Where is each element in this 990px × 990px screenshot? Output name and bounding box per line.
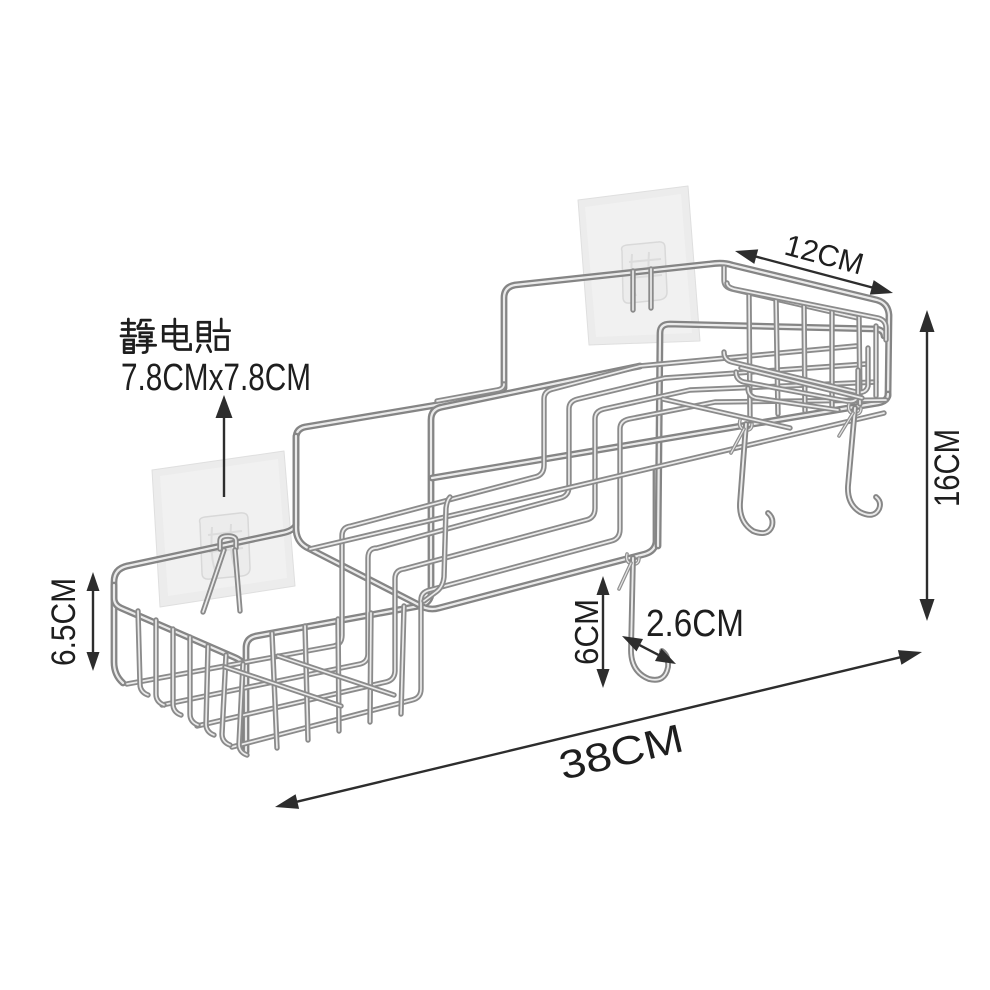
wire: step3 floor cross wire a [663, 399, 790, 428]
arrow: from pad1 up to pad size text [223, 414, 225, 497]
wire: pad1 mounting loop [220, 536, 236, 549]
wire: step1 end-wall vertical 1 [138, 611, 148, 695]
hook under step3 right [848, 408, 880, 515]
hook under step3 right retaining tab [839, 413, 853, 436]
wire: staircase floor/riser wire 1 [127, 346, 856, 684]
wire: step1 front rim arch rising to step2 front rim [246, 366, 640, 752]
wire: step3 front-wall vertical 5 [859, 316, 860, 404]
wire: step1 end-wall vertical 2 [156, 620, 164, 705]
wire: step1 end-wall vertical 4 [190, 637, 198, 725]
dimension: 2.6CM hook opening arrow [637, 644, 661, 656]
wire: step2 lower back rail [437, 384, 504, 401]
hook under step3 left retaining tab [731, 429, 744, 453]
translucent hook plate on pad1 [200, 513, 250, 579]
translucent hook plate on pad2 [622, 242, 667, 303]
svg-text:6.5CM: 6.5CM [45, 578, 83, 666]
hook under step2 retaining tab [619, 563, 631, 589]
wire: step1 end-wall vertical 5 [206, 646, 214, 735]
svg-text:2.6CM: 2.6CM [646, 603, 744, 645]
wire: step3 front-wall vertical 3 [804, 304, 805, 411]
hook under step3 left [740, 424, 773, 533]
wire: step3 upper back rim rail [727, 283, 886, 340]
hook attach wrap step2 [627, 554, 639, 564]
dimension: 16CM height arrow (right) [926, 329, 928, 602]
wire: step3 front-wall vertical 1 [749, 293, 750, 418]
wire: step1 floor cross wire a [225, 667, 341, 706]
wire: right end wall inner vertical [873, 326, 878, 396]
wire: pad2 mount wire right [648, 269, 653, 308]
svg-text:7.8CMx7.8CM: 7.8CMx7.8CM [121, 357, 311, 399]
wire: step1 front-wall vertical 2 [305, 626, 308, 740]
wire: staircase floor/riser wire 3 [197, 382, 876, 726]
wire: step1 front-wall vertical 5 [401, 606, 404, 714]
wire: step1 front-wall vertical 1 [272, 633, 277, 748]
wire: step1 end-wall vertical 3 [173, 629, 181, 715]
wire: step3 front-wall vertical 2 [776, 299, 778, 414]
wire: right end wall inner wire 2 [736, 370, 858, 401]
wire: step1 end-wall vertical 6 [222, 655, 230, 745]
wire: right end wall inner wire 3 [748, 388, 838, 410]
wire: main back frame (left column, back rails, risers, right end rim) [114, 263, 889, 683]
hook attach wrap step3 right [849, 404, 861, 414]
wire: step3 front-left column and front top rim [658, 324, 884, 546]
dimension: 12CM depth arrow (top right) [753, 256, 874, 288]
adhesive static sticker pad behind step1 [152, 451, 295, 607]
hook attach wrap step3 left [740, 420, 752, 430]
wire: step1 front-wall vertical 4 [370, 613, 371, 722]
svg-text:6CM: 6CM [568, 599, 605, 665]
wire: step1 left end rim and front-left corner column [114, 585, 245, 748]
wire: step1 front-wall vertical 3 [338, 619, 339, 731]
dimension: 38CM length arrow (bottom) [294, 657, 902, 803]
wire: right end wall inner wire 1 [724, 348, 868, 392]
wire: staircase floor/riser wire 2 [162, 364, 866, 705]
wire: step3 front bottom rail (hook rail) [432, 394, 888, 478]
wire: staircase floor/riser wire 4 [232, 400, 886, 747]
wire: step3 floor cross wire b [741, 368, 862, 398]
wire: step3 front-wall vertical 4 [829, 310, 834, 407]
dimension: 6.5CM basket height arrow (left) [92, 588, 94, 655]
wire: pad1 mount leg right [235, 550, 240, 611]
label: pad size text 静电贴 (drawn as vector strokes) [122, 322, 135, 325]
wire: step2 step-edge (riser, depth sill, front bottom rail, front column) [296, 436, 656, 609]
wire: step3 inner-left end rim [724, 267, 858, 318]
hook under step2 [631, 558, 668, 680]
wire: step1 floor cross wire b [278, 656, 394, 695]
wire: long lower front rail across step2/step3 [310, 413, 884, 549]
wire: step1 end-wall vertical 7 [239, 664, 247, 755]
wire: step2 front-left inner vertical [424, 497, 450, 601]
dimension: 6CM hook length arrow [602, 592, 604, 672]
wire: pad2 mount wire left [630, 271, 635, 310]
svg-text:16CM: 16CM [928, 429, 967, 507]
wire: pad1 mount leg left [203, 550, 224, 612]
adhesive static sticker pad behind step3 [578, 186, 700, 345]
